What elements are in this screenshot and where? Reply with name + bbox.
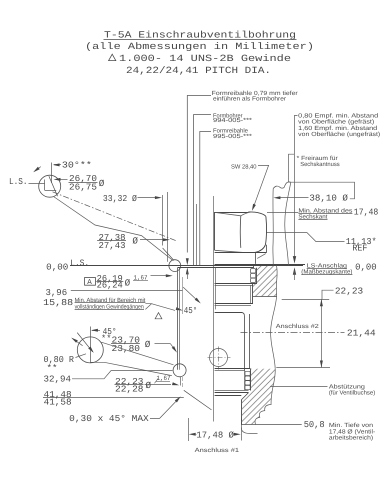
svg-text:Anschluss #2: Anschluss #2 [276,323,320,330]
svg-text:von Oberfläche (gefräst): von Oberfläche (gefräst) [298,119,374,126]
svg-text:0,00: 0,00 [355,262,377,272]
svg-text:17,48 Ø (Ventil-: 17,48 Ø (Ventil- [329,428,375,435]
svg-text:Ø: Ø [145,339,151,350]
svg-text:L.S.: L.S. [70,258,89,268]
svg-text:994-005-***: 994-005-*** [213,117,253,124]
svg-text:(für Ventilbuchse): (für Ventilbuchse) [329,390,375,397]
svg-text:0,00: 0,00 [46,263,68,273]
svg-text:Sechskantnuss: Sechskantnuss [300,161,340,168]
svg-text:27,43: 27,43 [99,241,126,251]
svg-text:24,22/24,41 PITCH DIA.: 24,22/24,41 PITCH DIA. [126,65,271,76]
svg-text:Min. Tiefe von: Min. Tiefe von [329,422,373,429]
svg-text:50,8: 50,8 [304,420,325,430]
svg-text:21,44: 21,44 [347,328,376,338]
svg-text:33,32 Ø: 33,32 Ø [103,194,138,204]
svg-text:0,80 Empf. min. Abstand: 0,80 Empf. min. Abstand [298,113,378,120]
svg-text:26,75: 26,75 [69,183,97,193]
svg-text:1.000- 14 UNS-2B Gewinde: 1.000- 14 UNS-2B Gewinde [119,53,291,64]
svg-text:41,58: 41,58 [44,398,72,408]
svg-text:32,94: 32,94 [44,375,72,385]
svg-text:arbeitsbereich): arbeitsbereich) [329,435,373,442]
svg-text:17,48 Ø: 17,48 Ø [196,431,234,441]
svg-text:SW 28,40: SW 28,40 [231,163,257,170]
svg-text:0,30 x 45° MAX: 0,30 x 45° MAX [69,414,149,424]
svg-text:Ø: Ø [132,235,138,246]
svg-text:von Oberfläche (ungefräst): von Oberfläche (ungefräst) [298,131,380,138]
svg-text:einführen als Formbohrer: einführen als Formbohrer [213,96,286,103]
svg-text:**: ** [47,364,58,374]
svg-text:REF: REF [352,244,367,254]
svg-text:45°: 45° [184,306,198,316]
svg-text:15,88: 15,88 [43,298,73,308]
svg-text:17,48: 17,48 [354,207,379,217]
svg-text:22,23: 22,23 [335,287,363,297]
svg-text:Ø: Ø [146,380,152,391]
svg-text:(alle Abmessungen in Millimete: (alle Abmessungen in Millimeter) [85,41,314,52]
svg-text:3,96: 3,96 [46,288,68,298]
svg-text:1,60 Empf. min. Abstand: 1,60 Empf. min. Abstand [298,125,377,132]
svg-text:1,67: 1,67 [157,375,171,382]
svg-text:30°**: 30°** [62,161,92,171]
svg-text:* Freiraum für: * Freiraum für [297,155,338,162]
svg-text:T-5A Einschraubventilbohrung: T-5A Einschraubventilbohrung [104,29,296,40]
svg-text:Ø: Ø [99,178,105,189]
svg-text:Abstützung: Abstützung [329,383,365,390]
svg-text:22,28: 22,28 [115,385,144,395]
svg-text:38,10 Ø: 38,10 Ø [309,194,348,204]
svg-text:26,24: 26,24 [97,281,123,291]
svg-text:Anschluss #1: Anschluss #1 [195,447,240,454]
svg-text:Ø: Ø [125,277,131,288]
svg-text:995-005-***: 995-005-*** [213,133,253,140]
svg-text:Min. Abstand für Bereich mit: Min. Abstand für Bereich mit [75,297,146,304]
svg-text:L.S.: L.S. [9,177,28,187]
svg-text:A: A [87,279,92,287]
